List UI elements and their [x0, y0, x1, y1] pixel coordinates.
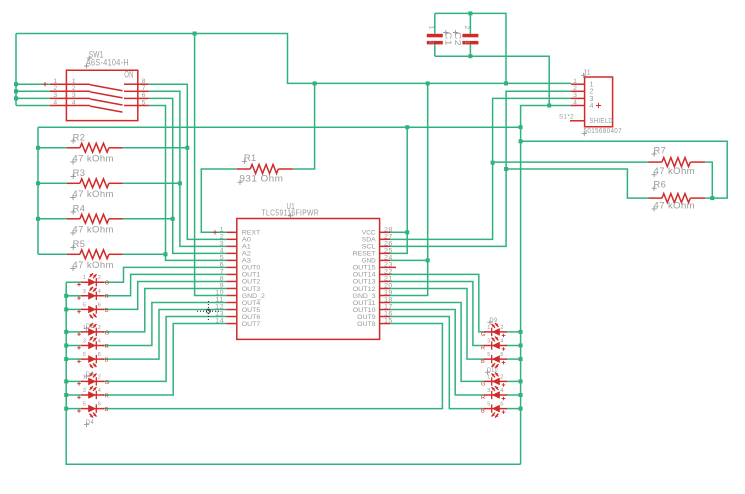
svg-text:B: B [105, 407, 109, 413]
svg-text:1: 1 [83, 275, 87, 281]
svg-text:OUT2: OUT2 [242, 279, 261, 286]
svg-text:12: 12 [215, 304, 224, 311]
svg-text:3: 3 [487, 339, 491, 345]
svg-text:C1: C1 [444, 32, 454, 46]
svg-text:26: 26 [384, 240, 393, 247]
svg-text:1: 1 [463, 41, 470, 45]
svg-text:J1: J1 [583, 70, 591, 77]
svg-text:2: 2 [428, 41, 435, 45]
svg-text:GND_3: GND_3 [353, 293, 376, 300]
svg-text:2: 2 [53, 85, 57, 92]
svg-text:OUT3: OUT3 [242, 286, 261, 293]
svg-text:VCC: VCC [362, 230, 376, 237]
svg-text:G: G [105, 330, 110, 336]
svg-text:4: 4 [98, 339, 102, 345]
svg-text:OUT15: OUT15 [353, 265, 376, 272]
svg-text:47 kOhm: 47 kOhm [72, 189, 114, 200]
svg-text:A2: A2 [242, 251, 251, 258]
svg-text:20: 20 [384, 282, 393, 289]
svg-text:4: 4 [98, 388, 102, 394]
svg-text:47 kOhm: 47 kOhm [654, 166, 696, 177]
svg-text:OUT0: OUT0 [242, 265, 261, 272]
svg-text:OUT14: OUT14 [353, 272, 376, 279]
svg-text:GND_2: GND_2 [242, 293, 265, 300]
svg-text:13: 13 [215, 311, 224, 318]
svg-text:S1*2: S1*2 [559, 114, 574, 121]
svg-text:7: 7 [220, 268, 224, 275]
svg-text:OUT6: OUT6 [242, 314, 261, 321]
svg-text:A1: A1 [242, 244, 251, 251]
svg-text:4: 4 [220, 247, 224, 254]
svg-text:GND: GND [362, 258, 376, 265]
svg-text:1: 1 [220, 226, 224, 233]
svg-text:3: 3 [72, 92, 76, 99]
svg-text:3: 3 [83, 339, 87, 345]
svg-text:2: 2 [463, 26, 470, 30]
svg-text:1: 1 [428, 26, 435, 30]
svg-text:5015680407: 5015680407 [584, 128, 623, 135]
svg-text:2: 2 [220, 233, 224, 240]
svg-text:2: 2 [500, 325, 504, 331]
svg-text:R: R [105, 294, 109, 300]
svg-text:3: 3 [590, 96, 594, 103]
svg-text:4: 4 [53, 99, 57, 106]
svg-text:R3: R3 [73, 168, 86, 179]
svg-text:16: 16 [384, 311, 393, 318]
svg-text:4: 4 [72, 99, 76, 106]
svg-text:4: 4 [590, 103, 594, 110]
svg-text:5: 5 [220, 254, 224, 261]
svg-text:REXT: REXT [242, 230, 260, 237]
svg-text:47 kOhm: 47 kOhm [72, 260, 114, 271]
svg-text:R2: R2 [73, 132, 86, 143]
svg-text:28: 28 [384, 226, 393, 233]
svg-text:A6S-4104-H: A6S-4104-H [86, 57, 129, 68]
svg-text:2: 2 [590, 89, 594, 96]
svg-text:D2: D2 [86, 323, 94, 330]
svg-text:1: 1 [487, 325, 491, 331]
svg-text:R7: R7 [654, 146, 667, 157]
svg-text:1: 1 [590, 82, 594, 89]
svg-text:24: 24 [384, 254, 393, 261]
svg-text:OUT12: OUT12 [353, 286, 376, 293]
svg-text:ON: ON [124, 70, 134, 80]
svg-text:19: 19 [384, 289, 393, 296]
svg-text:23: 23 [384, 261, 393, 268]
svg-text:22: 22 [384, 268, 393, 275]
svg-text:6: 6 [98, 352, 102, 358]
svg-text:1: 1 [487, 374, 491, 380]
svg-text:2: 2 [98, 275, 102, 281]
svg-text:5: 5 [83, 402, 87, 408]
svg-text:21: 21 [384, 275, 393, 282]
svg-text:14: 14 [215, 318, 224, 325]
svg-text:7: 7 [142, 85, 146, 92]
svg-text:OUT7: OUT7 [242, 321, 261, 328]
svg-text:B: B [481, 409, 485, 415]
svg-text:OUT9: OUT9 [357, 314, 376, 321]
svg-text:2: 2 [573, 85, 577, 92]
svg-text:6: 6 [500, 402, 504, 408]
svg-text:3: 3 [220, 240, 224, 247]
svg-text:18: 18 [384, 297, 393, 304]
svg-text:R5: R5 [73, 239, 86, 250]
svg-text:SCL: SCL [362, 244, 376, 251]
svg-text:4: 4 [573, 99, 577, 106]
svg-text:D4: D4 [86, 419, 94, 426]
svg-text:5: 5 [487, 352, 491, 358]
svg-text:2: 2 [98, 325, 102, 331]
svg-text:B: B [105, 308, 109, 314]
svg-text:B: B [105, 358, 109, 364]
svg-text:R1: R1 [244, 153, 257, 164]
svg-text:47 kOhm: 47 kOhm [654, 200, 696, 211]
svg-text:R4: R4 [73, 203, 86, 214]
svg-text:R: R [105, 393, 109, 399]
svg-text:1: 1 [573, 78, 577, 85]
svg-text:2: 2 [72, 85, 76, 92]
svg-text:6: 6 [500, 352, 504, 358]
svg-text:G: G [105, 281, 110, 287]
svg-text:4: 4 [98, 289, 102, 295]
svg-text:15: 15 [384, 318, 393, 325]
svg-text:1: 1 [53, 78, 57, 85]
svg-text:47 kOhm: 47 kOhm [72, 153, 114, 164]
svg-text:TLC59116FIPWR: TLC59116FIPWR [262, 209, 320, 218]
svg-text:3: 3 [83, 289, 87, 295]
svg-text:D10: D10 [487, 367, 498, 374]
svg-text:RESET: RESET [353, 251, 376, 258]
svg-text:OUT1: OUT1 [242, 272, 261, 279]
svg-text:R: R [481, 395, 485, 401]
svg-text:D9: D9 [490, 317, 498, 324]
svg-text:3: 3 [53, 92, 57, 99]
svg-text:4: 4 [500, 388, 504, 394]
svg-text:G: G [481, 381, 486, 387]
svg-text:17: 17 [384, 304, 393, 311]
svg-text:931 Ohm: 931 Ohm [239, 174, 283, 185]
svg-text:3: 3 [487, 388, 491, 394]
svg-text:47 kOhm: 47 kOhm [72, 224, 114, 235]
svg-text:4: 4 [500, 339, 504, 345]
svg-text:5: 5 [142, 99, 146, 106]
svg-text:1: 1 [72, 78, 76, 85]
svg-text:3: 3 [573, 92, 577, 99]
svg-text:R: R [481, 346, 485, 352]
svg-text:SDA: SDA [362, 237, 376, 244]
svg-text:A0: A0 [242, 237, 251, 244]
svg-text:SHIELD: SHIELD [590, 118, 614, 125]
svg-text:OUT11: OUT11 [353, 300, 376, 307]
svg-text:5: 5 [83, 352, 87, 358]
svg-text:OUT5: OUT5 [242, 307, 261, 314]
svg-text:6: 6 [98, 302, 102, 308]
svg-text:OUT13: OUT13 [353, 279, 376, 286]
svg-text:C2: C2 [453, 32, 463, 46]
svg-text:G: G [481, 332, 486, 338]
svg-text:2: 2 [500, 374, 504, 380]
svg-text:B: B [481, 359, 485, 365]
svg-text:OUT4: OUT4 [242, 300, 261, 307]
svg-text:OUT8: OUT8 [357, 321, 376, 328]
svg-text:5: 5 [83, 302, 87, 308]
svg-text:8: 8 [142, 78, 146, 85]
svg-text:10: 10 [215, 289, 224, 296]
svg-text:3: 3 [83, 388, 87, 394]
svg-text:27: 27 [384, 233, 393, 240]
svg-text:6: 6 [142, 92, 146, 99]
svg-text:2: 2 [98, 374, 102, 380]
svg-text:25: 25 [384, 247, 393, 254]
svg-text:R6: R6 [654, 180, 667, 191]
svg-text:D3: D3 [86, 371, 94, 378]
svg-text:5: 5 [487, 402, 491, 408]
svg-text:6: 6 [98, 402, 102, 408]
svg-text:A3: A3 [242, 258, 251, 265]
svg-text:G: G [105, 380, 110, 386]
svg-text:6: 6 [220, 261, 224, 268]
svg-text:OUT10: OUT10 [353, 307, 376, 314]
svg-text:R: R [105, 344, 109, 350]
svg-text:9: 9 [220, 282, 224, 289]
svg-text:8: 8 [220, 275, 224, 282]
svg-text:11: 11 [215, 297, 224, 304]
